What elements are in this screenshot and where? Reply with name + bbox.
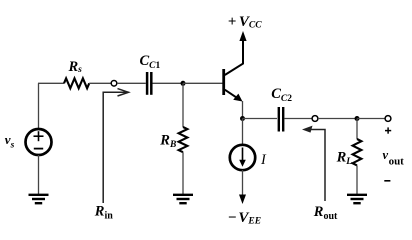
wire terminal to capacitor CC1 (117, 82, 146, 84)
svg-text:vs: vs (5, 132, 15, 150)
wire node E to capacitor CC2 (243, 118, 278, 120)
wire node A to base (183, 82, 223, 84)
node output terminal (open circle) (312, 116, 318, 122)
label CC2 (271, 86, 292, 104)
current source I (230, 145, 255, 170)
node A (junction dot at RB) (181, 81, 186, 86)
svg-text:RL: RL (336, 150, 353, 168)
VEE supply arrow (239, 195, 246, 205)
VCC supply arrow (239, 31, 246, 41)
wire output terminal to node B (318, 118, 357, 120)
wire node E to current source (242, 119, 244, 146)
wire RL to ground (356, 165, 358, 194)
resistor RB (179, 127, 188, 152)
wire from Rs to input terminal (89, 82, 111, 84)
Rin indicator arrow (103, 89, 128, 203)
svg-text:CC2: CC2 (271, 86, 292, 104)
svg-text:−VEE: −VEE (228, 210, 261, 227)
node input terminal (open circle) (111, 81, 117, 87)
ground under RB (173, 195, 193, 203)
node B (junction dot at RL) (355, 116, 360, 121)
node right terminal (open circle) (385, 116, 391, 122)
label minus output (384, 180, 390, 182)
transistor Q1 emitter branch with arrow (225, 90, 243, 102)
transistor Q1 collector branch (225, 36, 243, 75)
label plus output (385, 127, 391, 133)
label -VEE (228, 210, 261, 227)
wire node B down to RL (356, 119, 358, 140)
svg-text:Rs: Rs (68, 59, 83, 75)
Rout indicator arrow (302, 126, 325, 201)
transistor Q1 base bar (222, 69, 225, 95)
wire top rail left segment (38, 82, 64, 84)
svg-text:Rin: Rin (94, 204, 113, 222)
wire CC2 to output terminal (284, 118, 312, 120)
svg-text:+VCC: +VCC (228, 14, 262, 31)
label I (260, 152, 267, 168)
wire RB to ground (182, 152, 184, 194)
svg-text:RB: RB (159, 133, 176, 150)
label RL (336, 150, 353, 168)
label CC1 (140, 53, 161, 71)
ground under vs (29, 195, 49, 203)
capacitor CC2 (279, 107, 283, 132)
wire node B to right terminal (357, 118, 385, 120)
wire source to ground (38, 155, 40, 194)
svg-text:CC1: CC1 (140, 53, 161, 71)
label Rs (68, 59, 83, 75)
label Rout (313, 204, 338, 222)
wire node A down to RB (182, 83, 184, 127)
label RB (159, 133, 176, 150)
resistor RL (353, 139, 362, 165)
ground under RL (347, 195, 367, 203)
label vs (5, 132, 15, 150)
node E (emitter junction dot) (240, 116, 245, 121)
wire left vertical from source to top rail (38, 83, 40, 129)
wire emitter to node E (242, 101, 244, 119)
resistor Rs (64, 78, 89, 88)
svg-text:I: I (260, 152, 267, 168)
label Rin (94, 204, 113, 222)
voltage source vs (26, 129, 52, 155)
wire current source to VEE arrow (242, 170, 244, 196)
svg-text:Rout: Rout (313, 204, 338, 222)
svg-text:vout: vout (383, 148, 405, 168)
label vout (383, 148, 405, 168)
label +VCC (228, 14, 262, 31)
wire CC1 to node A (153, 82, 184, 84)
capacitor CC1 (147, 72, 151, 95)
